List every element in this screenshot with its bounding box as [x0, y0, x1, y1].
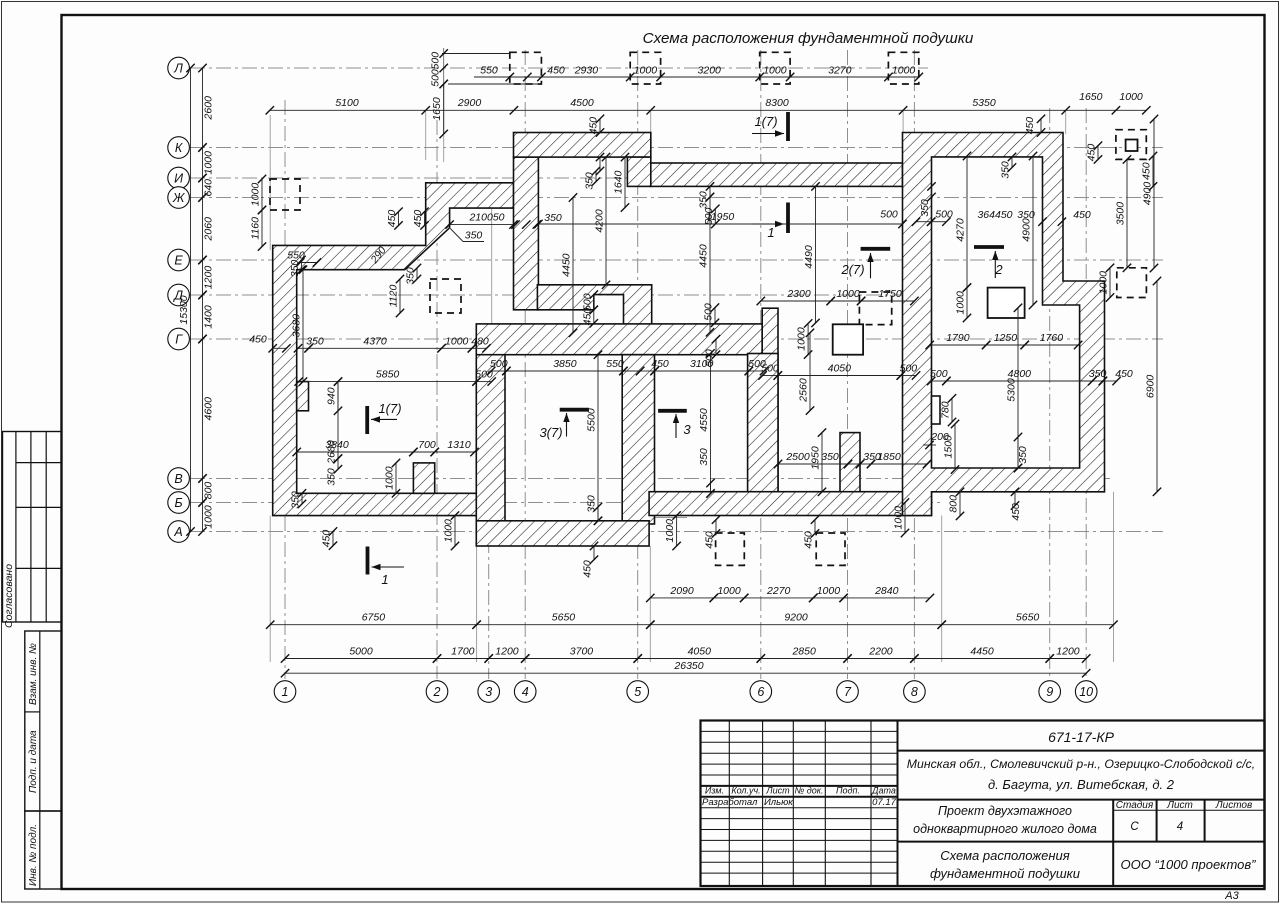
svg-text:1200: 1200: [1056, 646, 1080, 658]
svg-text:450: 450: [412, 210, 424, 228]
svg-text:Ильюк: Ильюк: [764, 797, 793, 808]
svg-text:4: 4: [1177, 821, 1183, 833]
svg-text:1200: 1200: [495, 646, 519, 658]
svg-text:4550: 4550: [698, 408, 710, 432]
svg-text:500: 500: [930, 368, 948, 380]
svg-text:1000: 1000: [664, 519, 676, 543]
svg-text:5650: 5650: [552, 612, 576, 624]
dim int 500 rowX2: [897, 363, 921, 380]
svg-text:940: 940: [326, 387, 338, 405]
axis line 7: [847, 50, 849, 679]
svg-text:4050: 4050: [688, 646, 712, 658]
dim left 1000: [198, 498, 214, 535]
dim int 500 rowX: [758, 363, 782, 380]
dim row3 550: [606, 358, 644, 375]
dim int 350 room3: [586, 495, 603, 525]
axis line A: [190, 531, 1163, 533]
axis line 9: [1049, 108, 1051, 679]
svg-text:Схема расположения фундаментно: Схема расположения фундаментной подушки: [643, 30, 974, 47]
svg-text:фундаментной подушки: фундаментной подушки: [930, 866, 1080, 881]
axis line 1: [284, 100, 286, 679]
section mark 1(7) top: [752, 112, 788, 141]
svg-text:4600: 4600: [203, 397, 215, 421]
svg-text:450: 450: [386, 210, 398, 228]
dim int 1760: [1021, 332, 1083, 349]
axis circle A: [168, 521, 190, 543]
column box middle room: [833, 324, 863, 354]
axis line 6: [760, 50, 762, 679]
svg-text:1: 1: [381, 572, 388, 587]
svg-text:15300: 15300: [178, 295, 190, 324]
extension bottom 941: [941, 516, 943, 663]
svg-text:350: 350: [1017, 209, 1035, 221]
svg-text:3500: 3500: [1115, 202, 1127, 226]
dim int 5300: [1006, 304, 1023, 473]
dim int 2500: [774, 451, 852, 468]
axis circle 2: [426, 681, 448, 703]
svg-text:5: 5: [634, 685, 641, 699]
svg-text:3: 3: [683, 422, 691, 437]
dim int 1250: [982, 332, 1029, 349]
dim notch D 500: [581, 290, 598, 314]
svg-text:5350: 5350: [972, 97, 996, 109]
svg-text:500: 500: [430, 52, 442, 70]
axis circle 10: [1075, 681, 1097, 703]
dim int 700: [409, 439, 439, 456]
dim int 350 wall lower: [326, 454, 343, 485]
dim int 350 s1: [294, 335, 324, 352]
axis circle 8: [904, 681, 926, 703]
dim bot total 26350: [281, 660, 1091, 677]
svg-text:Подп.: Подп.: [836, 786, 860, 796]
svg-text:450: 450: [1115, 368, 1133, 380]
dim int 1000h boxB: [955, 283, 972, 322]
dim left total 15300: [178, 64, 195, 536]
svg-text:500: 500: [748, 358, 766, 370]
dim int 3680: [291, 266, 308, 386]
svg-text:500: 500: [703, 207, 715, 225]
dim int 3840: [293, 439, 418, 456]
svg-text:6900: 6900: [1145, 375, 1157, 399]
dim rr 350 top: [1000, 153, 1017, 179]
svg-text:№ док.: № док.: [795, 786, 824, 796]
wall pad wall axis 5 upper: [762, 308, 778, 492]
dim G 500: [704, 335, 721, 367]
axis circle V: [168, 468, 190, 490]
svg-text:700: 700: [418, 439, 436, 451]
svg-text:одноквартирного жилого дома: одноквартирного жилого дома: [913, 822, 1097, 836]
dim bot 1200a: [485, 646, 530, 663]
dim int 1000 boxA: [796, 319, 813, 359]
dim row 2: [266, 91, 1151, 115]
svg-text:350: 350: [586, 495, 598, 513]
svg-text:8: 8: [911, 685, 918, 699]
svg-text:3700: 3700: [570, 646, 594, 658]
left block Vzam/Podp: [25, 631, 62, 811]
svg-text:450: 450: [651, 358, 669, 370]
dim mid 500 up: [703, 205, 720, 229]
svg-text:1000: 1000: [1098, 271, 1110, 295]
svg-text:4450: 4450: [561, 253, 573, 277]
dim int 350 v: [821, 451, 864, 468]
dim int 4200: [594, 153, 611, 289]
dim rr row 500a: [880, 209, 935, 226]
dim int 450 g: [1099, 368, 1133, 385]
svg-text:2900: 2900: [457, 97, 482, 109]
svg-text:1000: 1000: [763, 65, 787, 77]
footing box top left: [270, 179, 300, 210]
axis circle 4: [514, 681, 536, 703]
axis line 2: [436, 120, 438, 679]
axis circle 3: [478, 681, 500, 703]
dim int 350 r: [1014, 433, 1029, 472]
svg-text:1: 1: [282, 685, 289, 699]
dim right 1000e: [1098, 264, 1115, 302]
axis line 8: [913, 50, 915, 679]
svg-text:5650: 5650: [1016, 612, 1040, 624]
footing box bottom 2: [816, 533, 845, 565]
svg-text:350: 350: [405, 267, 417, 285]
svg-text:4500: 4500: [570, 97, 594, 109]
wall pad left wall with E and Zh bands: [273, 183, 514, 516]
svg-text:4200: 4200: [594, 209, 606, 233]
dim left 4600: [198, 335, 214, 483]
dim int 780: [940, 394, 957, 426]
axis line B: [190, 502, 940, 504]
svg-text:Г: Г: [175, 332, 183, 346]
svg-text:К: К: [175, 141, 183, 155]
svg-text:Взам. инв. №: Взам. инв. №: [28, 643, 39, 705]
svg-text:450: 450: [1086, 144, 1098, 162]
axis circle 1: [274, 681, 296, 703]
axis circle 7: [837, 681, 859, 703]
axis circle D: [168, 284, 190, 306]
dim int 450 room4200: [596, 153, 604, 175]
dim rr 4270: [955, 152, 972, 292]
svg-text:350: 350: [289, 260, 301, 278]
dim int 2680: [326, 377, 343, 464]
svg-text:1650: 1650: [431, 97, 443, 121]
svg-text:450: 450: [1141, 162, 1153, 180]
dim int 1000k: [664, 511, 681, 550]
svg-text:Ж: Ж: [172, 191, 186, 205]
axis circle K: [168, 137, 190, 159]
svg-text:2060: 2060: [203, 217, 215, 242]
svg-text:ООО “1000 проектов”: ООО “1000 проектов”: [1121, 857, 1257, 872]
dim bot 1200b: [1046, 646, 1091, 663]
svg-text:6750: 6750: [362, 612, 386, 624]
svg-text:Проект двухэтажного: Проект двухэтажного: [938, 804, 1072, 818]
svg-text:500: 500: [900, 363, 918, 375]
svg-text:4800: 4800: [1008, 368, 1032, 380]
svg-text:9200: 9200: [784, 612, 808, 624]
svg-text:800: 800: [948, 495, 960, 513]
dim right 6900: [1145, 277, 1162, 496]
svg-text:1750: 1750: [878, 288, 902, 300]
footing box bottom 1: [716, 533, 745, 565]
dim int 1000f: [827, 288, 866, 305]
title block grid: [701, 721, 1265, 887]
svg-text:1000: 1000: [717, 585, 741, 597]
dim int 4450: [561, 193, 578, 337]
svg-text:450: 450: [588, 117, 600, 135]
dim right 3500: [1115, 155, 1132, 272]
svg-text:2270: 2270: [766, 585, 791, 597]
svg-text:Изм.: Изм.: [705, 786, 724, 796]
extension left top: [269, 115, 271, 250]
svg-text:1000: 1000: [203, 151, 215, 175]
svg-text:Стадия: Стадия: [1116, 800, 1154, 811]
svg-text:5850: 5850: [376, 369, 400, 381]
svg-text:450: 450: [1010, 503, 1022, 521]
svg-text:А3: А3: [1224, 890, 1239, 902]
svg-text:3850: 3850: [553, 358, 577, 370]
dim int 350 w: [856, 451, 881, 468]
svg-text:500: 500: [490, 358, 508, 370]
dim int 1310: [431, 439, 479, 456]
svg-text:1400: 1400: [203, 305, 215, 329]
footing box middle left: [430, 279, 461, 313]
footing box on axis L 1: [510, 52, 542, 84]
wall pad bottom band below room 3: [476, 521, 649, 546]
svg-text:1000: 1000: [892, 65, 916, 77]
dim row3 500b: [745, 358, 769, 375]
svg-text:5300: 5300: [1006, 378, 1018, 402]
dim bot 5000: [281, 646, 441, 663]
svg-text:1000: 1000: [836, 288, 860, 300]
dim box1 1160: [250, 206, 267, 251]
dim 450 band1: [588, 115, 605, 137]
dim bot 450 box1: [704, 516, 721, 549]
dim bot 2090: [646, 585, 718, 602]
svg-text:450: 450: [321, 530, 333, 548]
dim int 1850: [867, 451, 931, 468]
dim left 1000: [198, 143, 214, 182]
extension bottom 1113: [1113, 492, 1115, 662]
dim int 450 l: [249, 333, 290, 352]
dim left 2060: [198, 193, 214, 264]
axis circle I: [168, 167, 190, 189]
svg-text:Лист: Лист: [1166, 800, 1193, 811]
dim bot 3700: [521, 646, 642, 663]
section mark 2(7): [840, 249, 890, 278]
title block frame: [701, 721, 1265, 887]
svg-text:350: 350: [1089, 368, 1107, 380]
svg-text:3(7): 3(7): [539, 425, 562, 440]
section mark 1 mid: [752, 203, 788, 241]
svg-text:640: 640: [203, 179, 215, 197]
dim notch 50 and 350: [511, 220, 519, 228]
section mark 1(7) left: [367, 401, 401, 434]
wall pad middle-left wall axis 2: [476, 325, 505, 521]
svg-text:Схема расположения: Схема расположения: [940, 848, 1069, 863]
svg-text:2(7): 2(7): [840, 262, 864, 277]
dim diag 450 b: [412, 208, 429, 230]
extension 425: [425, 110, 427, 160]
dim int 350 bottomleft: [290, 489, 307, 509]
footing box middle: [859, 292, 891, 325]
wall pad axis G band: [476, 324, 762, 355]
extension left bottom: [269, 516, 271, 662]
dim bot 2270: [740, 585, 817, 602]
dim bot 450 box2: [803, 516, 820, 549]
svg-text:2: 2: [433, 685, 441, 699]
dim bot 2840: [839, 585, 934, 602]
dim bot 1000b: [809, 585, 848, 602]
dim int 1950: [810, 428, 827, 496]
dim bot 4450: [910, 646, 1054, 663]
axis circle 6: [750, 681, 772, 703]
leader 350 diag: [450, 229, 463, 242]
svg-text:450: 450: [1024, 117, 1036, 135]
svg-text:450: 450: [1073, 209, 1091, 221]
dim int 5500: [586, 351, 603, 526]
axis line D: [190, 294, 905, 296]
svg-text:500: 500: [935, 209, 953, 221]
extension 538: [537, 162, 539, 290]
dim int 2560: [798, 329, 815, 415]
svg-text:480: 480: [471, 335, 489, 347]
dim int 1000i: [437, 335, 476, 352]
dim bot 1000 c: [893, 498, 910, 537]
svg-text:Л: Л: [173, 61, 183, 75]
section mark 1 bottom left: [368, 547, 405, 588]
dim right 450 low: [1141, 152, 1158, 191]
dim int 350 g: [1088, 368, 1107, 385]
extension 491: [491, 209, 493, 335]
dim int 1750: [857, 288, 919, 305]
extension 1065: [1065, 110, 1067, 134]
svg-text:1000: 1000: [250, 183, 262, 207]
footing box on axis L 2: [630, 52, 660, 84]
dim box1 1000: [250, 175, 267, 214]
extension 650: [650, 110, 652, 132]
svg-text:350: 350: [584, 172, 596, 190]
axis line V: [190, 478, 1110, 480]
svg-text:В: В: [174, 472, 182, 486]
svg-text:4900: 4900: [1021, 218, 1033, 242]
column top right: [1126, 140, 1138, 152]
footing box on axis L 3: [760, 52, 790, 84]
wall pad left wall widening upper: [297, 382, 309, 411]
dim int 4050 rowX: [774, 363, 905, 380]
svg-text:1(7): 1(7): [754, 114, 777, 129]
svg-text:2840: 2840: [874, 585, 899, 597]
svg-text:Листов: Листов: [1215, 800, 1252, 811]
axis circle G: [168, 328, 190, 350]
svg-text:3840: 3840: [325, 439, 349, 451]
section mark 3: [658, 411, 691, 438]
svg-text:4: 4: [522, 685, 529, 699]
svg-text:350: 350: [698, 191, 710, 209]
extension bottom 650: [649, 546, 651, 662]
dim 350 box2: [405, 264, 422, 285]
axis line L: [190, 67, 928, 69]
left approval table: [3, 432, 62, 623]
svg-text:1950: 1950: [810, 446, 822, 470]
svg-text:26350: 26350: [673, 660, 703, 672]
svg-text:364450: 364450: [977, 209, 1012, 221]
dim rr 4900: [1021, 152, 1038, 309]
wall pad axis 4 vertical band: [514, 157, 539, 310]
svg-text:д. Багута, ул. Витебская, д. 2: д. Багута, ул. Витебская, д. 2: [988, 777, 1175, 792]
svg-text:Разработал: Разработал: [702, 797, 758, 808]
dim int 350 room3b: [698, 448, 715, 498]
svg-text:Лист: Лист: [765, 786, 790, 796]
svg-text:350: 350: [821, 451, 839, 463]
svg-text:1700: 1700: [451, 646, 475, 658]
svg-text:Е: Е: [174, 253, 183, 267]
svg-text:350: 350: [919, 199, 931, 217]
svg-text:Минская обл., Смолевичский р-н: Минская обл., Смолевичский р-н., Озерицк…: [907, 757, 1255, 771]
svg-text:550: 550: [606, 358, 624, 370]
dim int 4490: [803, 182, 820, 327]
svg-text:500: 500: [703, 303, 715, 321]
axis circle 9: [1039, 681, 1061, 703]
svg-text:3100: 3100: [690, 358, 714, 370]
dim int 4370: [304, 335, 445, 352]
dim int 5850: [295, 369, 481, 386]
wall pad pier in room 1: [413, 463, 434, 493]
dim bot 4050: [634, 646, 766, 663]
dim row axis L: [474, 65, 923, 82]
dim row3 3850: [502, 358, 627, 375]
dim 1120 box2: [388, 275, 405, 317]
dim int 500 l: [472, 369, 496, 386]
svg-text:1000: 1000: [955, 291, 967, 315]
svg-text:4490: 4490: [803, 245, 815, 269]
svg-text:500: 500: [880, 209, 898, 221]
dim bot 2200: [843, 646, 918, 663]
wall pad right section (axis 8 wall, top band, right wall, bottom band): [903, 133, 1105, 516]
svg-text:500: 500: [475, 369, 493, 381]
svg-text:5500: 5500: [586, 408, 598, 432]
svg-text:450: 450: [704, 531, 716, 549]
svg-text:2: 2: [994, 262, 1003, 277]
extension step bottom: [650, 517, 687, 519]
svg-text:450: 450: [803, 531, 815, 549]
svg-text:2600: 2600: [203, 96, 215, 121]
wall pad step between K and I bands: [627, 157, 650, 186]
dim bot 6750: [266, 612, 481, 629]
axis line K: [190, 147, 1163, 149]
svg-text:1250: 1250: [994, 332, 1018, 344]
dim left 1400: [198, 291, 214, 343]
wall pad bottom band centre: [649, 492, 931, 516]
svg-text:1000: 1000: [203, 505, 215, 529]
svg-text:550: 550: [480, 65, 498, 77]
axis line 4: [524, 50, 526, 679]
dim 450 topright: [1024, 115, 1045, 137]
svg-text:450: 450: [547, 65, 565, 77]
svg-text:4270: 4270: [955, 218, 967, 242]
footing box top right: [1116, 130, 1146, 160]
svg-text:4050: 4050: [828, 363, 852, 375]
dim int 1500: [943, 420, 960, 474]
dim bot 1700: [433, 646, 493, 663]
dim left 640: [198, 174, 214, 202]
svg-text:Кол.уч.: Кол.уч.: [731, 786, 760, 796]
dim int 1790: [926, 332, 991, 349]
dim int 1000 n2: [443, 511, 460, 550]
svg-text:1: 1: [767, 225, 774, 240]
svg-text:Согласовано: Согласовано: [3, 564, 15, 628]
svg-text:1850: 1850: [877, 451, 901, 463]
dim int 4800: [942, 368, 1096, 385]
svg-text:3200: 3200: [698, 65, 722, 77]
dim bracket 500/500 top left: [442, 53, 509, 55]
extension 903: [902, 110, 904, 132]
